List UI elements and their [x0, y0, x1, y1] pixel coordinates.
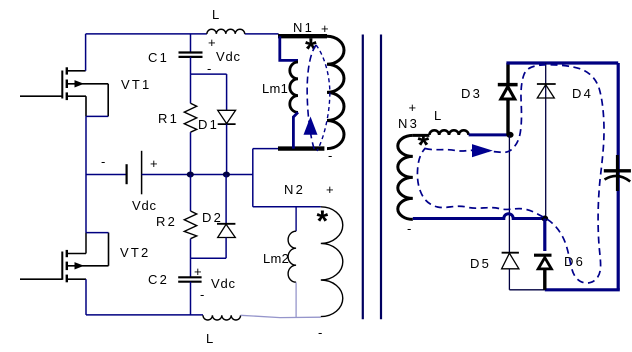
wire Lm1 top link	[280, 36, 298, 60]
node junction R	[187, 172, 194, 178]
resistor R1	[190, 74, 192, 103]
svg-text:-: -	[101, 154, 105, 169]
svg-text:D6: D6	[564, 254, 585, 269]
svg-text:N2: N2	[284, 182, 305, 197]
arrow secondary loop	[472, 144, 493, 157]
diode D3	[506, 63, 509, 83]
svg-text:Lm2: Lm2	[263, 251, 289, 266]
wire midpoint vertical	[85, 116, 87, 232]
transformer core bars	[363, 35, 381, 320]
node B (D6 cathode)	[541, 216, 548, 222]
wire VT2 source down	[85, 279, 87, 315]
svg-text:-: -	[318, 325, 322, 340]
capacitor C2	[190, 258, 192, 277]
inductor Lm1	[290, 62, 298, 112]
svg-text:L: L	[206, 331, 213, 346]
svg-text:Vdc: Vdc	[216, 49, 241, 64]
svg-text:-: -	[407, 221, 411, 236]
transistor VT1	[20, 67, 108, 116]
svg-text:L: L	[434, 108, 441, 123]
wire center tap link	[253, 148, 278, 150]
arrow primary loop	[304, 117, 318, 135]
svg-text:VT2: VT2	[120, 245, 150, 260]
wire N2 top lead	[253, 206, 321, 208]
winding N3 coil	[398, 135, 413, 219]
svg-text:*: *	[305, 33, 317, 66]
wire rectifier right vertical	[617, 63, 620, 290]
svg-text:+: +	[194, 264, 202, 279]
inductor L (bottom)	[203, 315, 241, 320]
dashed magnetizing current loop (primary)	[307, 45, 316, 150]
svg-text:C2: C2	[148, 272, 169, 287]
svg-text:Lm1: Lm1	[262, 81, 288, 96]
winding N1 top bar	[278, 34, 327, 38]
wire L to D3 node	[469, 133, 510, 136]
wire bottom link to secondary winding	[241, 315, 321, 317]
wire rectifier bottom rail	[545, 288, 620, 291]
svg-text:N3: N3	[398, 116, 419, 131]
svg-text:D5: D5	[470, 256, 491, 271]
winding N2 coil	[321, 207, 343, 317]
svg-text:+: +	[150, 156, 158, 171]
winding N1 bottom bar	[278, 146, 324, 150]
inductor L (secondary)	[429, 130, 468, 135]
svg-text:D1: D1	[198, 117, 219, 132]
capacitor C1	[190, 34, 192, 52]
svg-text:R1: R1	[158, 111, 179, 126]
node junction D	[223, 172, 230, 178]
svg-text:R2: R2	[156, 214, 177, 229]
wire N3 bottom lead with hop	[413, 214, 545, 219]
svg-text:L: L	[212, 7, 219, 22]
battery Vdc	[86, 174, 127, 176]
diode D2	[225, 175, 227, 224]
svg-text:Vdc: Vdc	[211, 276, 236, 291]
svg-text:+: +	[409, 100, 417, 115]
wire top rail	[85, 34, 87, 71]
capacitor (output)	[616, 155, 619, 191]
svg-text:D4: D4	[572, 86, 593, 101]
inductor L (top)	[207, 29, 245, 34]
dashed secondary current loop	[417, 65, 604, 283]
wire C1 to D1 jog	[191, 73, 227, 75]
svg-text:D2: D2	[202, 210, 223, 225]
node A (D3 anode)	[506, 132, 513, 138]
wire D3/D5 thin column	[508, 135, 510, 253]
svg-text:VT1: VT1	[121, 77, 151, 92]
wire rectifier top rail	[506, 61, 618, 64]
wire N3 top lead	[413, 134, 430, 137]
transistor VT2	[20, 233, 109, 283]
svg-text:*: *	[317, 205, 329, 238]
svg-text:+: +	[326, 182, 334, 197]
wire VT1 body-source link	[86, 115, 108, 117]
svg-text:C1: C1	[148, 50, 169, 65]
inductor Lm2	[295, 207, 297, 231]
wire center rail	[142, 174, 253, 176]
svg-text:D3: D3	[461, 86, 482, 101]
wire Lm1 bottom link	[293, 112, 298, 148]
svg-text:Vdc: Vdc	[132, 198, 157, 213]
wire bottom rail	[86, 314, 203, 316]
svg-text:-: -	[200, 287, 204, 302]
diode D1	[226, 74, 228, 110]
diode D5	[502, 252, 519, 254]
svg-text:+: +	[208, 35, 216, 50]
wire bottom thin link D5-D6	[509, 289, 544, 291]
diode D6	[543, 219, 546, 252]
svg-text:-: -	[328, 148, 332, 163]
svg-text:+: +	[321, 21, 329, 36]
winding N1 coil	[327, 36, 344, 148]
wire R2/D2 to C2 jog	[191, 257, 227, 259]
diode D4	[545, 63, 547, 219]
resistor R2	[190, 175, 192, 212]
